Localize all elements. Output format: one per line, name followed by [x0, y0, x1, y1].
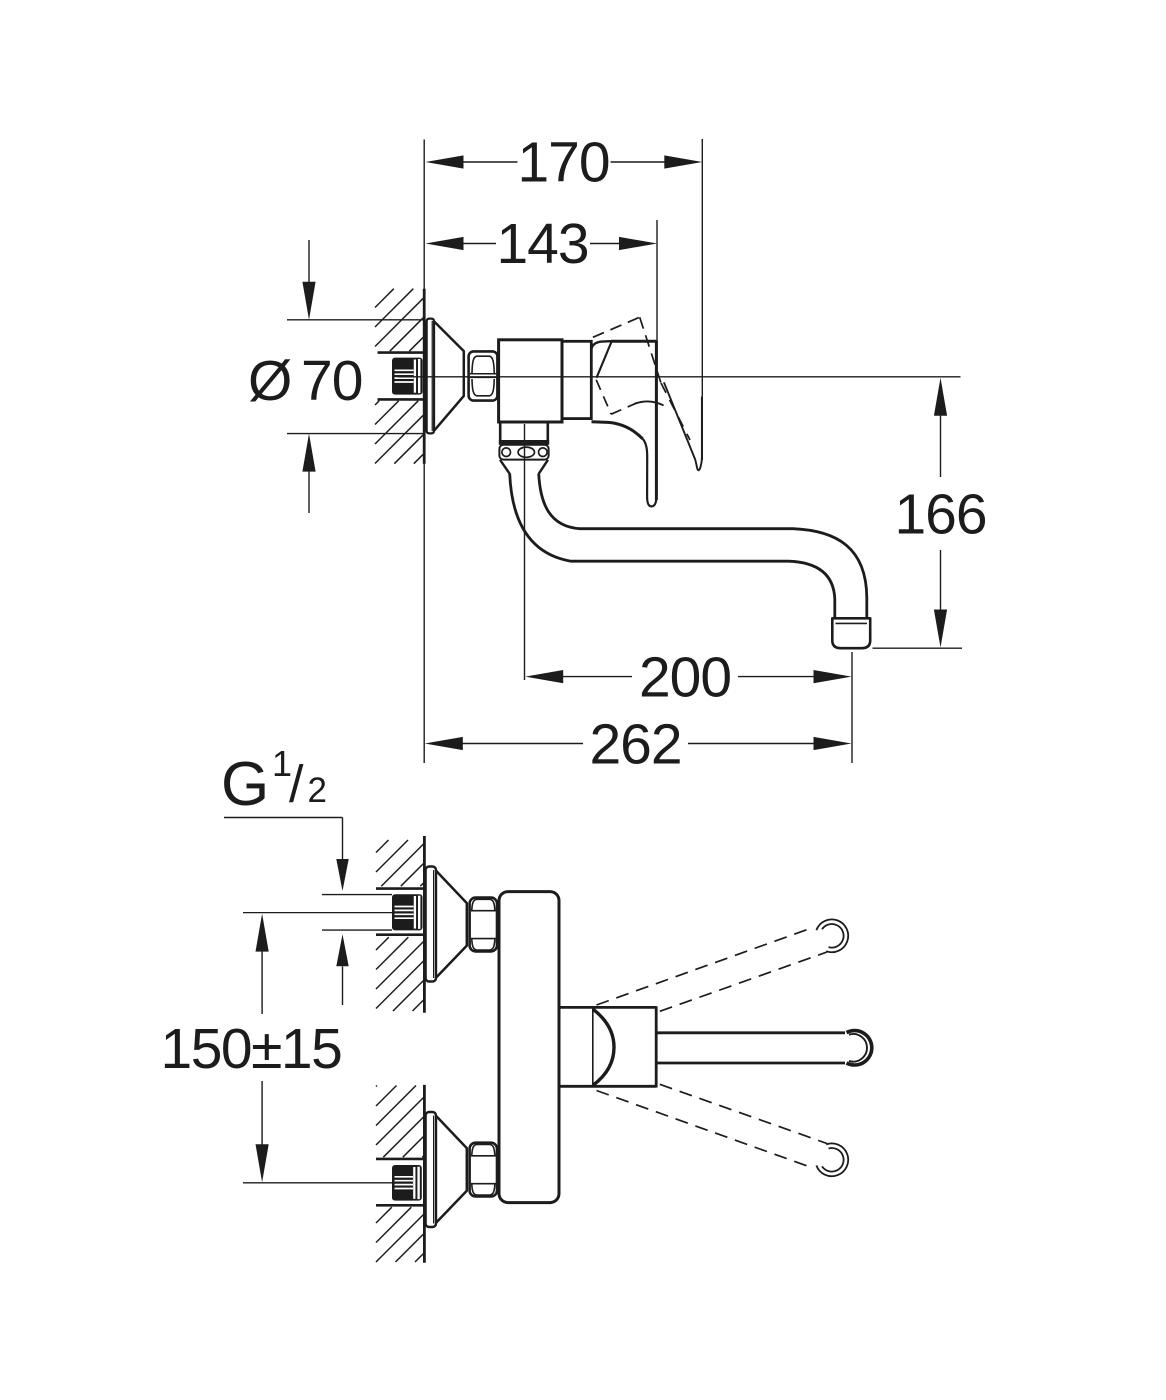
extension line x=657 (dim 143) — [656, 220, 658, 377]
dimension 262 — [425, 712, 852, 776]
spout tube (side view) — [510, 474, 867, 619]
wall line / extension line x=424 — [423, 140, 425, 764]
faucet body plate (plan view) — [499, 892, 559, 1203]
dimension Ø70 text — [248, 349, 362, 413]
wall hatching (side view) — [375, 289, 423, 464]
handle dome (side view) — [591, 341, 656, 439]
upper hex nut (plan view) — [470, 898, 497, 952]
lower inlet centerline — [243, 1182, 392, 1184]
upper escutcheon flange (plan view) — [426, 867, 436, 982]
svg-text:70: 70 — [301, 349, 362, 413]
spout tube end cap (plan view) — [847, 1031, 872, 1065]
extension line x=524.5 (dim 200) — [524, 424, 526, 680]
extension line x=852 (dims 200/262) — [851, 652, 853, 763]
spout swung down tip — [816, 1143, 848, 1176]
wall line (plan view) — [423, 836, 426, 1263]
spout tube (plan view) — [657, 1033, 845, 1063]
spout swung up tip — [816, 919, 848, 952]
svg-text:143: 143 — [496, 212, 588, 276]
handle open position dashed outline — [593, 317, 690, 440]
dimension Ø70 arrows — [302, 240, 315, 513]
svg-text:2: 2 — [308, 771, 327, 810]
svg-text:166: 166 — [894, 482, 986, 546]
spout swivel collar — [499, 422, 549, 474]
spout swung down dashed — [597, 1084, 828, 1168]
lower inlet thread pipe (plan view) — [392, 1165, 422, 1201]
svg-text:150±15: 150±15 — [161, 1017, 342, 1081]
lower escutcheon cone (plan view) — [436, 1116, 467, 1223]
extension line y=648 (dim 166) — [873, 647, 963, 649]
inlet pipe extension lines (plan view) — [322, 895, 392, 931]
dimension 170 — [426, 131, 703, 195]
spout swung up dashed — [597, 928, 828, 1012]
svg-text:Ø: Ø — [248, 349, 292, 413]
handle lever open position (side view) — [664, 382, 702, 470]
inlet thread pipe (side view) — [392, 358, 423, 395]
upper escutcheon cone (plan view) — [436, 871, 467, 978]
dimension Ø70 extension lines — [287, 320, 424, 434]
upper inlet centerline — [243, 912, 392, 914]
svg-text:170: 170 — [517, 131, 609, 195]
svg-text:200: 200 — [639, 645, 731, 709]
lower escutcheon flange (plan view) — [426, 1112, 436, 1227]
handle lever blade closed (side view) — [643, 341, 657, 506]
cartridge cap ring (side view) — [562, 341, 591, 418]
lower hex nut (plan view) — [470, 1143, 497, 1197]
label G 1/2 — [221, 743, 327, 819]
centerline (side view) — [398, 376, 961, 378]
svg-text:262: 262 — [589, 712, 681, 776]
wall hatching (plan view) — [376, 840, 424, 1262]
valve body (side view) — [499, 340, 562, 422]
svg-text:G: G — [221, 750, 269, 819]
dimension 166 — [894, 378, 986, 648]
spout swivel joint (plan view) — [559, 1006, 656, 1087]
wall hole edges (side view) — [378, 353, 424, 400]
extension line x=702 (dim 170) — [701, 139, 703, 460]
handle pivot arc (side view) — [634, 401, 664, 405]
spout outlet tip (side view) — [832, 618, 870, 648]
upper inlet thread pipe (plan view) — [392, 894, 423, 930]
dimension 150±15 — [161, 914, 342, 1183]
hex connection nut (side view) — [469, 351, 498, 400]
escutcheon cone (side view) — [434, 322, 464, 431]
escutcheon flange (side view) — [427, 319, 434, 434]
label G 1/2 leader line — [224, 818, 349, 1006]
dimension 143 — [426, 212, 658, 276]
dimension 200 — [525, 645, 851, 709]
svg-text:/: / — [289, 756, 304, 814]
wall hole edges (plan view) — [376, 889, 424, 1206]
